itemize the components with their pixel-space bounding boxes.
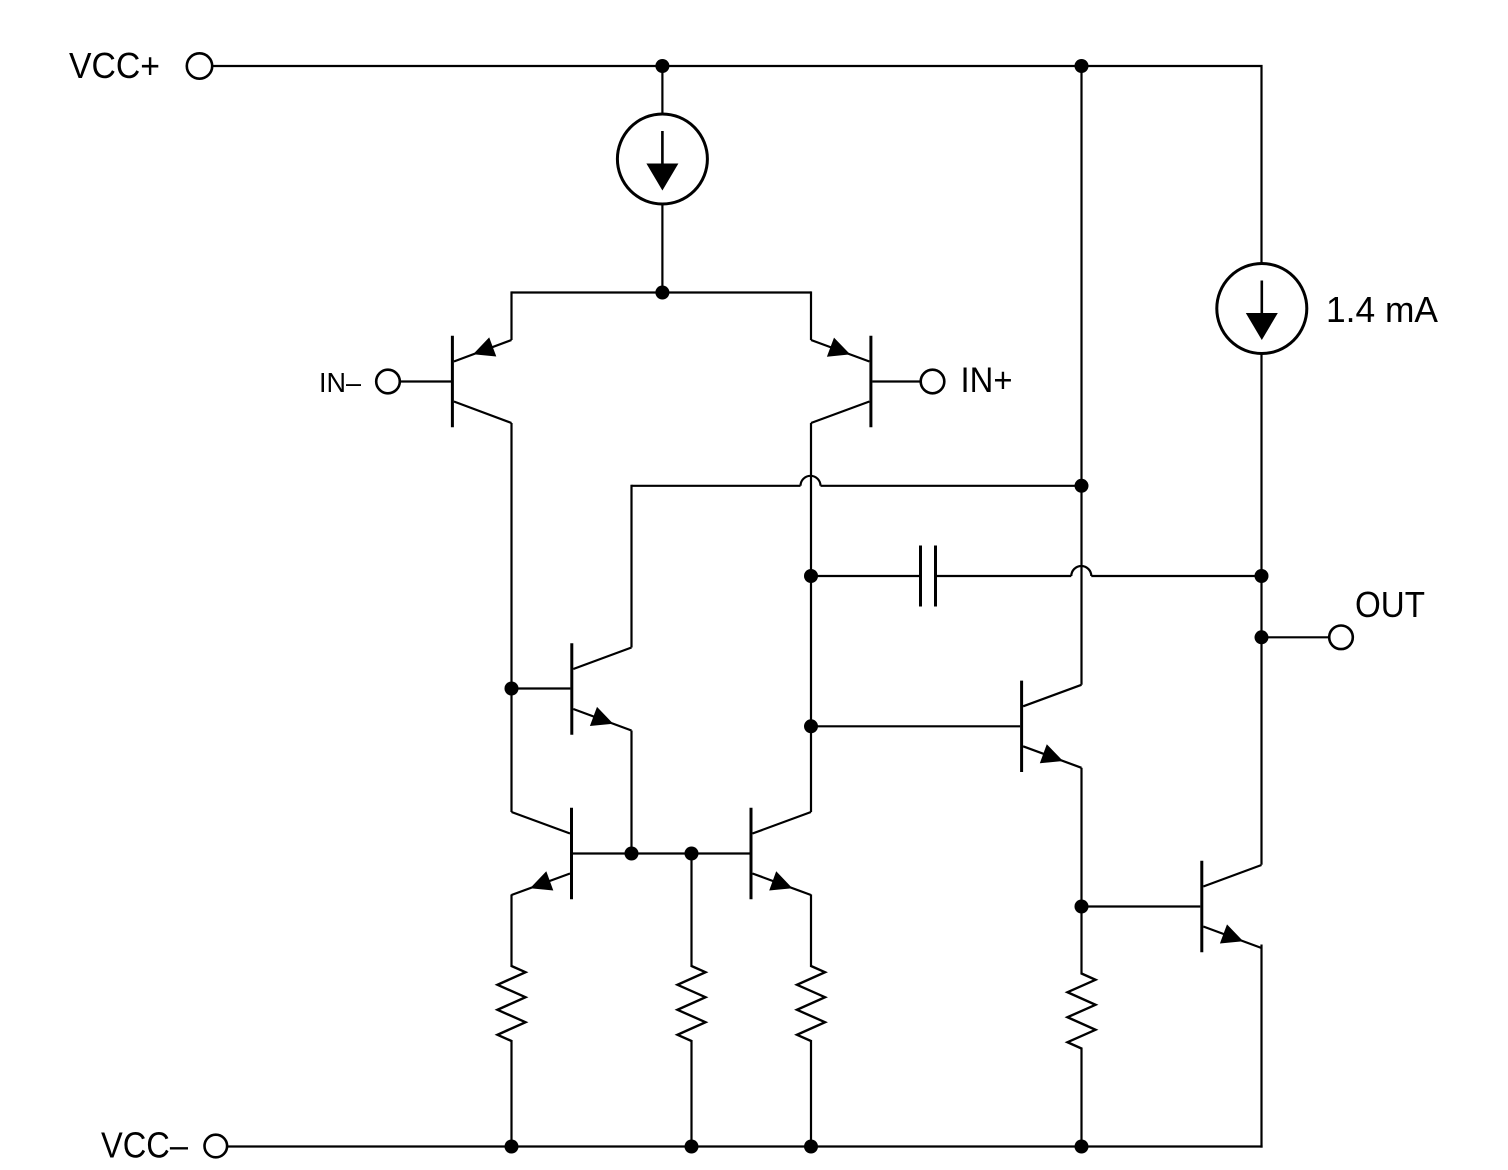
wire R3 bottom lead (810, 1040, 812, 1147)
svg-text:VCC+: VCC+ (69, 45, 160, 86)
wire R1 bottom lead (510, 1040, 512, 1147)
svg-text:VCC–: VCC– (101, 1124, 188, 1165)
junction node VCC+/I1 (655, 59, 669, 73)
resistor R1 (498, 966, 526, 1041)
junction node mirror bus/R2 (685, 847, 699, 861)
junction node rail/R2 (685, 1140, 699, 1154)
wire IN- lead (400, 380, 452, 382)
wire Q5 base lead (811, 725, 1020, 727)
terminal IN- (376, 370, 400, 394)
wire Q3 collector stub (630, 485, 632, 648)
wire diff-pair emitter bus (512, 291, 812, 293)
terminal IN+ (921, 370, 945, 394)
wire Q7 emitter stub to R3 (810, 895, 812, 968)
svg-text:1.4 mA: 1.4 mA (1326, 289, 1438, 330)
wire right rail (I2 to Q6 collector) (1260, 354, 1262, 865)
junction node OUT tap (1255, 630, 1269, 644)
wire Q3 collector to node B (hops over Q2 collector) (632, 485, 1082, 487)
wire Q1 emitter stub (510, 291, 512, 340)
wire Q5 emitter stub (1080, 768, 1082, 907)
junction node emitter bus/I1 (655, 286, 669, 300)
wire current source I1 bottom lead (661, 203, 663, 293)
svg-text:IN+: IN+ (961, 361, 1013, 400)
wire Q1 collector drop to Q4 collector (510, 423, 512, 812)
wire hop at Q2 collector crossing (801, 476, 821, 486)
wire R4 top lead (1080, 907, 1082, 975)
transistor Q1 (452, 336, 511, 427)
wire Q2 collector drop to Q7 collector (810, 423, 812, 812)
junction node mirror bus/Q3 emitter (625, 847, 639, 861)
transistor Q4 (512, 808, 572, 899)
junction node VCC+/node-B drop (1075, 59, 1089, 73)
resistor R4 (1068, 974, 1096, 1049)
wire Q6 emitter drop (1260, 945, 1262, 1148)
wire Q6 base lead (1082, 905, 1201, 907)
wire Q3 base lead (512, 687, 571, 689)
wire capacitor right lead (hops over node-B drop) (937, 575, 1262, 577)
wire IN+ lead (872, 380, 921, 382)
resistor R2 (678, 966, 706, 1041)
junction node rail/R3 (804, 1140, 818, 1154)
transistor Q7 (751, 808, 811, 899)
wire Q3 emitter stub to mirror base bus (630, 731, 632, 854)
wire current mirror base bus (573, 852, 750, 854)
wire hop at node-B drop crossing (1071, 566, 1091, 576)
transistor Q5 (1022, 681, 1082, 772)
transistor Q6 (1202, 861, 1262, 952)
current source I1 (617, 114, 707, 204)
capacitor C1 (921, 546, 936, 607)
junction node B / Q3 collector (1075, 479, 1089, 493)
wire VCC- bottom rail (227, 1145, 1262, 1147)
terminal VCC+ (187, 53, 212, 78)
junction node Q2 collector/capacitor (804, 569, 818, 583)
wire current source I1 top lead (661, 66, 663, 115)
current source I2 1.4mA (1217, 264, 1307, 354)
wire OUT lead (1262, 636, 1330, 638)
wire R2 top lead (690, 854, 692, 968)
svg-text:OUT: OUT (1355, 584, 1425, 625)
resistor R3 (797, 966, 825, 1041)
transistor Q2 (811, 336, 871, 427)
transistor Q3 (572, 643, 632, 734)
svg-text:IN–: IN– (319, 367, 361, 398)
terminal VCC- (205, 1135, 228, 1158)
junction node Q2 collector/Q5 base (804, 719, 818, 733)
junction node capacitor/right rail (1255, 569, 1269, 583)
wire Q4 emitter stub to R1 (510, 895, 512, 968)
junction node Q1 collector/Q3 base (505, 682, 519, 696)
wire Q2 emitter stub (810, 291, 812, 340)
junction node rail/R1 (505, 1140, 519, 1154)
junction node Q5 emitter/Q6 base (1075, 900, 1089, 914)
terminal OUT (1329, 626, 1353, 650)
wire node B drop (VCC+ to Q5 collector) (1080, 66, 1082, 685)
wire R4 bottom lead (1080, 1048, 1082, 1147)
wire VCC+ top rail (212, 66, 1262, 264)
junction node rail/R4 (1075, 1140, 1089, 1154)
wire capacitor left lead (811, 575, 919, 577)
wire R2 bottom lead (690, 1040, 692, 1147)
